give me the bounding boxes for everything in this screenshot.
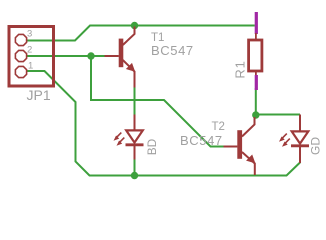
resistor R1 body [249, 40, 262, 71]
transistor T1 base bar [119, 39, 124, 68]
svg-text:BD: BD [145, 139, 159, 155]
junction dot at T1 base node [87, 52, 94, 59]
transistor T1 collector [123, 27, 135, 46]
resistor R1 bottom pin [255, 72, 257, 76]
JP1 pad 1 (octagon) [15, 66, 26, 77]
connector JP1 body [9, 27, 54, 87]
resistor R1 selected net stub (bottom, magenta) [255, 75, 258, 90]
svg-text:R1: R1 [233, 60, 248, 78]
transistor T1 base pin [105, 55, 119, 57]
resistor R1 selected net stub (top, magenta) [255, 12, 258, 34]
wire net1: pad1 down to bottom rail and up to LED2 [27, 71, 300, 176]
transistor T2 emitter [242, 152, 255, 175]
transistor T2 base bar [237, 130, 242, 159]
transistor T2 collector [242, 117, 255, 137]
LED2 cathode pin [299, 147, 301, 163]
wire net3: pad3 to top rail into R1 [27, 26, 255, 41]
JP1 pad 2 (octagon) [15, 50, 26, 61]
LED1 cathode bar [126, 143, 144, 146]
transistor T1 emitter arrow [127, 64, 135, 71]
wire: R1 bottom to T2 collector node [255, 88, 257, 115]
LED2 anode pin [299, 115, 301, 132]
wire: T2 collector node to LED2 anode [256, 114, 300, 116]
LED1 light arrow lower [120, 138, 125, 143]
svg-text:JP1: JP1 [27, 87, 51, 103]
junction dot on top rail at T1 collector [131, 22, 138, 29]
LED2 light arrow lower [285, 139, 290, 144]
JP1 pad 3 (octagon) [15, 34, 26, 45]
wire: LED1 cathode to bottom rail [134, 159, 136, 176]
transistor T2 base pin [224, 146, 238, 148]
LED1 light arrow upper [117, 133, 122, 138]
junction dot on bottom rail below LED1 [131, 172, 138, 179]
wire net2: junction down and across to T2 base [91, 56, 224, 147]
svg-text:GD: GD [309, 137, 323, 155]
svg-text:BC547: BC547 [151, 43, 194, 58]
junction dot at T2 collector node [252, 111, 259, 118]
svg-text:3: 3 [27, 28, 32, 39]
svg-text:1: 1 [28, 60, 33, 71]
LED1 cathode pin [134, 146, 136, 160]
resistor R1 top pin [255, 33, 257, 40]
LED1 anode pin [134, 115, 136, 131]
svg-text:2: 2 [27, 44, 32, 55]
transistor T2 emitter arrow [247, 155, 255, 162]
LED2 light arrow upper [282, 134, 287, 139]
LED2 triangle [292, 131, 309, 143]
wire: T1 emitter to LED1 anode [134, 87, 136, 115]
svg-text:BC547: BC547 [180, 133, 223, 148]
LED2 cathode bar [291, 144, 309, 147]
transistor T1 emitter [123, 60, 135, 88]
wire net2: pad2 to T1 base junction [27, 55, 105, 57]
LED1 triangle [126, 130, 143, 142]
svg-text:T2: T2 [212, 121, 225, 133]
